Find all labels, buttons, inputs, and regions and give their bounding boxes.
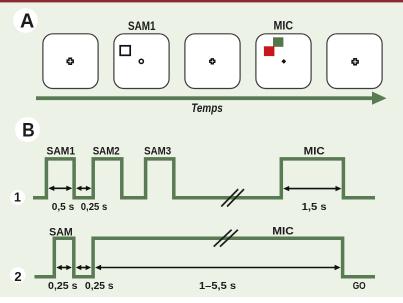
- svg-text:0,25 s: 0,25 s: [81, 202, 108, 213]
- svg-text:SAM3: SAM3: [144, 146, 171, 158]
- svg-text:0,25 s: 0,25 s: [48, 281, 78, 292]
- svg-text:0,25 s: 0,25 s: [85, 281, 114, 292]
- screen 1: [43, 34, 98, 89]
- top maroon border line: [0, 0, 403, 2]
- red target square screen 4: [264, 46, 275, 56]
- svg-text:MIC: MIC: [274, 21, 294, 33]
- time axis arrow (Temps): [36, 92, 387, 105]
- sample cue square screen 2: [120, 46, 130, 56]
- interval arrow 0,25 s trace 1: [76, 186, 91, 191]
- trace 1 marker circle: [10, 190, 25, 205]
- svg-text:MIC: MIC: [304, 146, 325, 158]
- trace 2 waveform: [35, 238, 376, 277]
- interval arrow 1,5 s trace 1: [283, 186, 341, 191]
- fixation cross screen 1: [67, 58, 73, 64]
- svg-text:1–5,5 s: 1–5,5 s: [199, 281, 236, 292]
- trace 2 marker circle: [10, 267, 26, 284]
- screen 3: [185, 34, 240, 89]
- svg-text:GO: GO: [353, 281, 366, 292]
- fixation cross screen 3: [210, 59, 215, 64]
- break symbol trace 2: [214, 230, 238, 247]
- svg-text:SAM2: SAM2: [93, 146, 120, 158]
- fixation ring screen 2: [139, 59, 143, 63]
- green target square screen 4: [273, 37, 283, 47]
- svg-text:B: B: [22, 120, 35, 142]
- fixation cross screen 5: [352, 59, 358, 65]
- svg-text:SAM1: SAM1: [47, 146, 76, 158]
- response diamond screen 4: [281, 59, 286, 64]
- interval arrow 1-5,5 s trace 2: [95, 265, 341, 270]
- trace 1 waveform: [33, 159, 375, 198]
- svg-text:Temps: Temps: [191, 101, 223, 115]
- interval arrow first 0,25 s trace 2: [56, 265, 72, 270]
- svg-text:MIC: MIC: [272, 226, 294, 238]
- svg-text:SAM1: SAM1: [128, 21, 156, 33]
- svg-text:2: 2: [14, 269, 21, 284]
- interval arrow 0,5 s trace 1: [48, 186, 72, 191]
- screen 4: [256, 34, 311, 89]
- panel label B: [15, 117, 40, 142]
- svg-text:1,5 s: 1,5 s: [302, 202, 327, 213]
- svg-text:A: A: [20, 10, 34, 32]
- interval arrow second 0,25 s trace 2: [76, 265, 91, 270]
- screen 5: [327, 34, 382, 89]
- svg-text:0,5 s: 0,5 s: [52, 202, 75, 213]
- svg-text:1: 1: [14, 191, 21, 205]
- svg-text:SAM: SAM: [49, 226, 73, 238]
- break symbol trace 1: [221, 189, 244, 206]
- panel label A: [13, 8, 38, 33]
- screen 2: [114, 34, 169, 89]
